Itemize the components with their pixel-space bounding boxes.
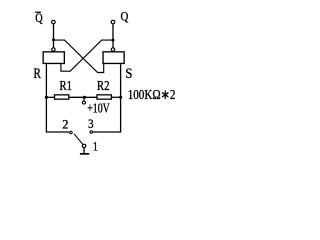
svg-text:Q: Q [121,8,129,23]
svg-text:R1: R1 [59,78,72,93]
svg-text:1: 1 [93,138,98,153]
wire rail left segment [46,96,54,98]
svg-text:2: 2 [62,116,68,131]
wire stub to +10V terminal [83,97,85,101]
node junction dot left output [52,38,55,41]
resistor R2 [97,95,111,99]
gate G2 body (right) [103,52,124,64]
switch contact 2 (circle) [70,131,73,134]
wire rail middle segment [69,96,97,98]
wire Q-bar terminal down to gate G1 output bubble [53,24,55,47]
gate G1 body (left) [43,52,64,64]
ground [80,153,89,155]
svg-text:+10V: +10V [87,102,110,117]
wire Q terminal down to gate G2 output bubble [112,24,114,47]
switch lever [74,134,83,144]
node junction dot rail middle [83,96,86,99]
gate G1 output bubble [52,48,55,51]
output terminal Q-bar (circle) [52,20,56,24]
wire cross-coupling left output to G2 lower-left input [54,40,104,72]
wire S input from G2 down through rail to switch contact 3 [93,64,121,132]
wire R input from G1 down through rail to switch contact 2 [46,64,69,132]
svg-text:R2: R2 [97,78,110,93]
node junction dot rail left [45,96,48,99]
svg-text:3: 3 [88,116,94,131]
wire pole to ground [83,148,85,153]
wire rail right segment [112,96,121,98]
node junction dot right output [112,39,115,42]
resistor R1 [55,95,69,99]
switch contact 3 (circle) [90,131,93,134]
node junction dot rail right [119,96,122,99]
terminal +10V (circle) [82,101,85,104]
gate G2 output bubble [111,48,114,51]
svg-text:R: R [34,66,42,82]
switch pole circle [82,144,85,147]
wire cross-coupling right output to G1 lower-right input [61,40,113,71]
svg-text:S: S [125,66,132,82]
svg-text:100KΩ∗2: 100KΩ∗2 [128,87,176,102]
output terminal Q (circle) [111,20,115,24]
